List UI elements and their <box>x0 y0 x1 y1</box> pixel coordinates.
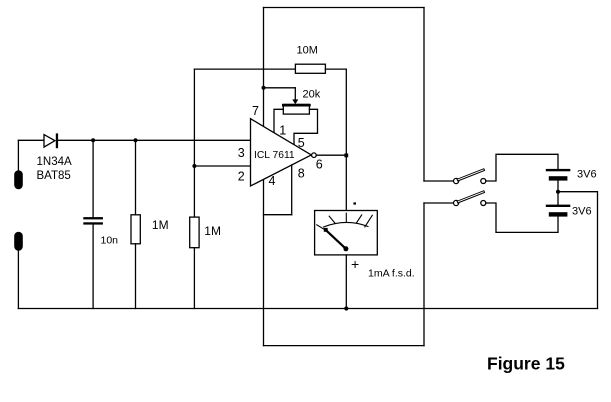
wire lower switch left lead <box>424 202 454 204</box>
wire pin 8 vertical <box>291 165 293 215</box>
svg-text:10M: 10M <box>297 45 318 57</box>
outer loop left edge lower (op-amp pin 4 to bottom) <box>263 179 265 345</box>
capacitor C1 top lead <box>92 140 94 217</box>
svg-text:8: 8 <box>298 167 305 181</box>
switch S1a blade <box>457 169 485 181</box>
battery B1 3V6 positive plate <box>546 169 571 171</box>
switch S1a left contact <box>454 178 459 183</box>
wire pot right terminal to op-amp pin 5 <box>294 109 318 145</box>
wire top input line from terminal to diode <box>18 139 44 141</box>
wire diode cathode to op-amp pin 3 <box>57 139 251 141</box>
label meter minus <box>353 202 356 204</box>
outer loop right edge upper <box>423 8 425 182</box>
svg-text:1M: 1M <box>152 218 169 232</box>
svg-text:6: 6 <box>316 158 323 172</box>
wire wiper bias horizontal <box>264 87 296 89</box>
wire wiper vertical into pot <box>294 88 296 100</box>
op-amp output inversion circle pin 6 <box>312 153 317 158</box>
wire left input vertical to terminal T1 <box>17 140 19 170</box>
meter scale ticks <box>317 213 373 230</box>
svg-text:5: 5 <box>298 136 305 150</box>
diode D1 cathode bar <box>56 133 58 148</box>
potentiometer VR1 20k body <box>283 104 309 114</box>
svg-text:Figure 15: Figure 15 <box>487 354 565 374</box>
svg-text:7: 7 <box>252 104 259 118</box>
junction battery center tap dot <box>556 190 560 194</box>
capacitor C1 bottom lead <box>92 225 94 309</box>
diode D1 1N34A/BAT85 triangle <box>44 135 55 148</box>
resistor R1 1M top lead <box>135 140 137 215</box>
op-amp U1 ICL7611 triangle <box>251 119 312 186</box>
battery B2 3V6 negative plate <box>549 212 568 216</box>
svg-text:3V6: 3V6 <box>572 206 592 218</box>
wire center tap to right down to rail <box>558 192 598 309</box>
wire 10M right lead to output node <box>325 68 346 70</box>
svg-text:3V6: 3V6 <box>577 169 597 181</box>
outer loop rectangle top edge <box>264 7 425 9</box>
meter M1 box <box>315 211 378 255</box>
junction dots on input node <box>91 138 95 142</box>
terminal input probe bottom (black capsule) <box>14 232 23 251</box>
wire terminal T2 down to bottom rail <box>17 251 19 309</box>
wire output pin 6 to junction <box>316 154 346 156</box>
svg-text:+: + <box>351 256 359 272</box>
junction output node square dot <box>344 154 348 158</box>
svg-text:1: 1 <box>279 123 286 137</box>
resistor R2 1M vertical lead from 10M corner through node A <box>193 69 195 217</box>
pot wiper arrowhead <box>292 99 298 104</box>
svg-text:1N34A: 1N34A <box>37 156 72 168</box>
wire node A to op-amp pin 2 <box>194 165 250 167</box>
terminal input probe top (black capsule) <box>14 170 23 189</box>
switch S1b left contact <box>454 200 459 205</box>
svg-text:2: 2 <box>238 170 245 184</box>
capacitor C1 plates <box>83 217 103 219</box>
meter needle <box>326 230 346 249</box>
wire upper switch right lead to battery top <box>486 154 558 181</box>
wire pin 4 to pin 8 horizontal join <box>264 214 292 216</box>
wire pot left terminal to op-amp pin 1 <box>274 109 283 132</box>
svg-text:1mA f.s.d.: 1mA f.s.d. <box>368 268 415 280</box>
outer loop right edge lower <box>423 203 425 346</box>
wire meter bottom to rail <box>345 255 347 309</box>
battery B2 3V6 positive plate <box>546 205 571 207</box>
junction node A dot <box>192 164 196 168</box>
svg-text:20k: 20k <box>303 89 321 101</box>
svg-text:BAT85: BAT85 <box>37 170 71 182</box>
wire battery B1 to center junction <box>557 181 559 205</box>
meter scale arc <box>324 222 369 227</box>
svg-text:10n: 10n <box>101 235 119 247</box>
wire upper switch left lead <box>424 180 454 182</box>
resistor R1 bottom lead <box>135 244 137 309</box>
svg-text:4: 4 <box>269 174 276 188</box>
resistor R2 1M body <box>190 217 199 248</box>
svg-text:1M: 1M <box>204 224 221 238</box>
resistor R2 bottom lead <box>193 248 195 309</box>
wire bottom 0V rail <box>18 308 597 310</box>
battery B1 3V6 negative plate <box>549 176 568 180</box>
wire lower switch right lead to battery bottom <box>486 203 558 232</box>
junction meter/rail dot <box>344 306 348 310</box>
resistor R1 1M body <box>131 215 140 244</box>
wire output node vertical down to meter top <box>345 69 347 210</box>
svg-text:3: 3 <box>238 146 245 160</box>
resistor R3 10M body <box>295 64 325 73</box>
switch S1a right contact <box>481 179 486 184</box>
outer loop bottom edge <box>264 345 425 347</box>
switch S1b blade <box>457 191 485 203</box>
potentiometer VR1 thick top track <box>283 104 309 107</box>
switch S1b right contact <box>481 201 486 206</box>
wire 10M left lead <box>194 68 295 70</box>
outer loop left edge upper (V+ to op-amp pin 7) <box>263 8 265 127</box>
svg-text:ICL 7611: ICL 7611 <box>254 150 295 161</box>
junction node pin7 / wiper bias dot <box>262 86 266 90</box>
